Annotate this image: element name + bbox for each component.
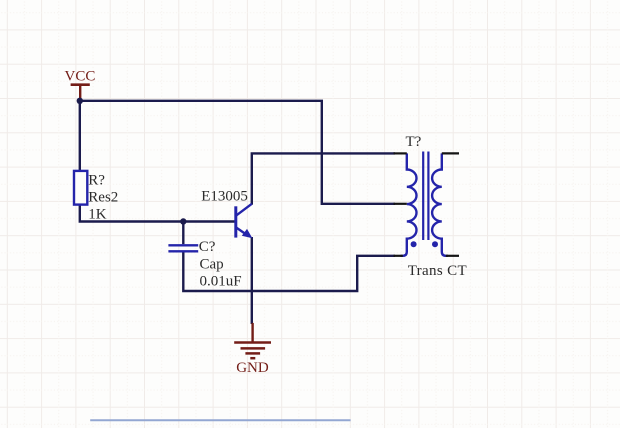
svg-text:VCC: VCC: [65, 69, 96, 85]
ground symbol GND: [234, 323, 271, 358]
junction node at base/capacitor: [180, 218, 186, 224]
svg-text:T?: T?: [406, 134, 422, 150]
svg-text:GND: GND: [236, 360, 269, 376]
svg-text:C?: C?: [199, 239, 216, 255]
svg-text:Cap: Cap: [200, 256, 224, 272]
screen artifact: light blue edge line at bottom: [90, 419, 350, 421]
junction node at VCC: [77, 98, 83, 104]
capacitor C? plates: [168, 245, 198, 251]
left winding: [401, 153, 417, 255]
wire: VCC rail to transformer center tap: [80, 101, 395, 204]
transistor Q1 E13005 (NPN): [236, 204, 253, 239]
wire: transistor emitter down to ground: [251, 237, 253, 324]
polarity dot right: [432, 241, 438, 247]
power symbol VCC: [71, 85, 90, 100]
pin bottom right: [446, 255, 459, 257]
core lines: [422, 152, 424, 241]
svg-text:R?: R?: [88, 172, 105, 188]
resistor R? (Res2 1K): [74, 171, 87, 205]
wire: junction down to capacitor C1 top: [182, 222, 184, 245]
svg-text:0.01uF: 0.01uF: [200, 273, 242, 289]
svg-text:Res2: Res2: [88, 189, 118, 205]
pin top right: [442, 152, 459, 154]
polarity dot left: [411, 241, 417, 247]
wire: resistor bottom to transistor base: [80, 204, 236, 221]
pin center tap: [394, 203, 407, 205]
svg-text:E13005: E13005: [201, 189, 248, 205]
pin 1 (top left): [394, 152, 407, 154]
wire: transistor collector up to transformer top pin: [252, 153, 395, 204]
pin bottom left: [394, 255, 403, 257]
svg-text:1K: 1K: [88, 206, 107, 222]
wire: VCC node down to resistor R1 top: [79, 101, 81, 172]
transformer T? (Trans CT): [394, 152, 460, 256]
right winding: [432, 153, 448, 255]
wire: capacitor bottom to ground bus and transformer bottom pin: [183, 252, 395, 291]
svg-text:Trans CT: Trans CT: [408, 263, 467, 279]
